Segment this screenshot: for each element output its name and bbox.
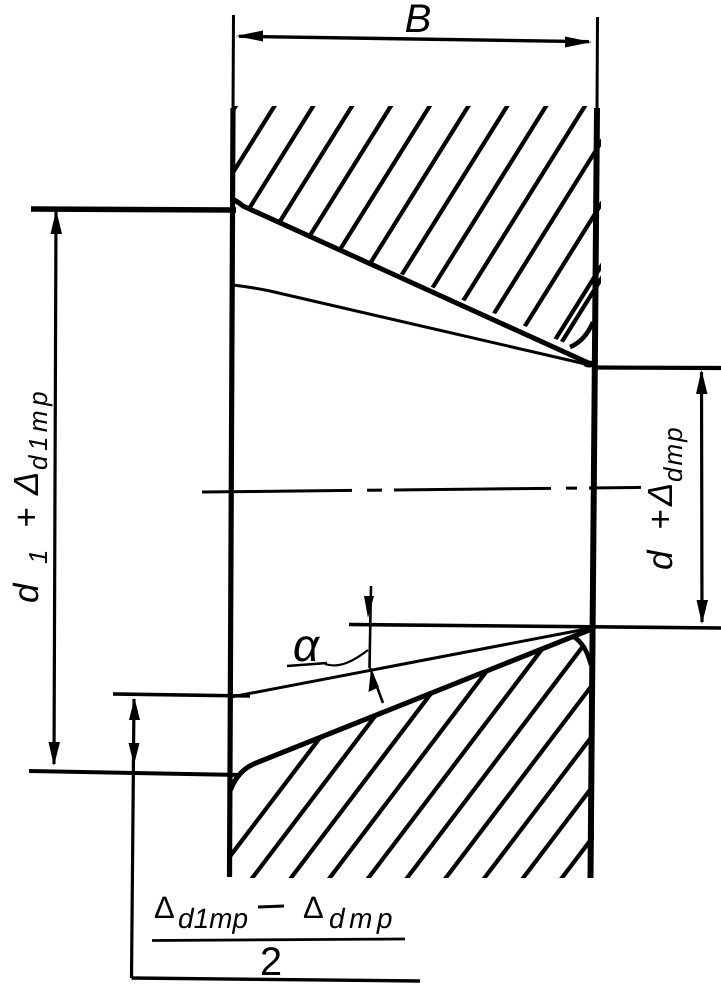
right face extension line (above part) (596, 17, 600, 110)
arrowhead B right (565, 37, 592, 48)
arrowhead small dim up (129, 698, 140, 720)
arrowhead d down (697, 600, 709, 624)
leader bottom horizontal line (132, 978, 421, 981)
nominal cone line top (thin taper) (233, 285, 590, 365)
fraction minus sign (258, 906, 284, 907)
junction blob bottom-right (582, 626, 594, 633)
angle dimension line (vertical through alpha angle) (370, 586, 372, 668)
arrowhead angle down (onto base line) (364, 596, 374, 618)
label d1 + delta d1mp (rotated) (7, 387, 53, 603)
corner fillet top-right (570, 322, 593, 347)
arrowhead small dim down (129, 743, 140, 765)
bore surface bottom (thick taper line) (231, 629, 593, 790)
extension line small dim top (y695) (113, 694, 250, 696)
arrowhead d up (696, 370, 708, 394)
nominal cone line bottom (thin taper) (231, 629, 589, 698)
extension line d top right (593, 365, 721, 370)
left face of ring (thick outline) (230, 108, 234, 877)
junction blob top-right (583, 361, 595, 368)
bore surface top (thick taper line) (232, 199, 593, 365)
angle dimension tail (370, 668, 383, 703)
corner fillet bottom-right (572, 636, 591, 665)
arrowhead d1 down (49, 742, 61, 766)
alpha underline (287, 663, 327, 666)
right face of ring (thick outline) (591, 108, 598, 878)
center line (dash-dot axis) (202, 487, 641, 492)
extension line d1 bottom (29, 771, 241, 775)
svg-text:B: B (405, 0, 432, 41)
hatch top region (61, 95, 721, 385)
hatch bottom region (203, 618, 721, 892)
label d + delta dmp (rotated) (641, 425, 688, 570)
dimension d line (700, 372, 704, 622)
extension line d bottom right (angle base line) (349, 625, 721, 629)
left face extension line (above part) (232, 15, 236, 110)
svg-text:2: 2 (260, 940, 282, 984)
extension line d1 top (31, 209, 236, 210)
alpha leader curve (325, 650, 368, 665)
arrowhead d1 up (51, 210, 63, 234)
dimension d1 line (54, 212, 56, 764)
arrowhead B left (236, 31, 263, 42)
small dimension vertical + leader line (132, 699, 135, 978)
fraction bar (152, 939, 405, 941)
arrowhead angle up (onto taper line) (369, 669, 380, 692)
dimension B line (239, 36, 589, 41)
